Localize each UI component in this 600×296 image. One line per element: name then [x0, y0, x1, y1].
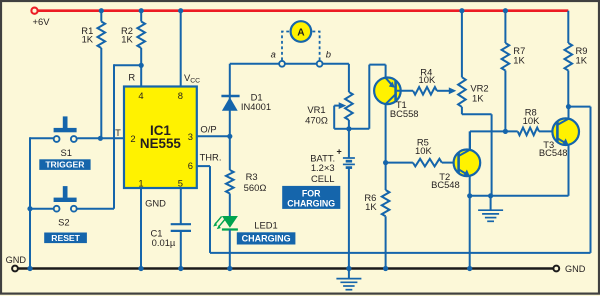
wire pin 3 output [197, 135, 230, 137]
ground terminal right [553, 266, 559, 272]
op-amp U1 IC1 NE555 body [124, 87, 197, 189]
wire ground column [29, 137, 31, 268]
ground symbol right [490, 196, 492, 210]
+6V supply terminal [31, 8, 37, 14]
resistor R3 [226, 170, 234, 194]
svg-text:GND: GND [565, 264, 586, 274]
wire +6V rail [38, 9, 569, 12]
node S2 junction [27, 206, 32, 211]
wire R4 to VR2 wiper [437, 90, 449, 92]
node trigger junction [98, 136, 103, 141]
svg-text:CELL: CELL [311, 173, 334, 184]
resistor R1 [98, 22, 106, 49]
node ground C1 [178, 266, 183, 271]
wire D1 branch [229, 64, 231, 137]
wire VR2 bottom to ground [461, 107, 463, 114]
svg-text:A: A [297, 27, 305, 38]
node ground S branch [27, 266, 32, 271]
node ground T2 [467, 266, 472, 271]
potentiometer VR1 [345, 92, 353, 120]
LED1 emission arrows [215, 216, 225, 226]
wire pin 1 to ground [140, 188, 142, 269]
svg-text:a: a [271, 49, 276, 60]
wire T2 collector line [470, 130, 518, 132]
svg-text:GND: GND [145, 197, 166, 208]
svg-text:1K: 1K [121, 33, 133, 44]
wire b to VR1 [322, 63, 349, 65]
svg-text:0.01µ: 0.01µ [152, 237, 176, 248]
node T2 emitter junction [467, 193, 472, 198]
svg-text:8: 8 [178, 90, 183, 101]
node R7 top junction [503, 8, 508, 13]
svg-text:IN4001: IN4001 [241, 101, 271, 112]
ground terminal left [12, 266, 18, 272]
wire R5 input [386, 162, 413, 164]
transistor Q3 T3 BC548 [552, 118, 579, 145]
wire R7 bottom [504, 71, 506, 132]
svg-text:T: T [115, 127, 121, 138]
transistor Q1 T1 BC558 [374, 78, 401, 105]
wire LED1 to ground [229, 230, 231, 269]
svg-text:TRIGGER: TRIGGER [45, 160, 85, 170]
label TRIGGER [39, 159, 90, 170]
LED LED1 [222, 216, 238, 228]
svg-text:560Ω: 560Ω [244, 182, 267, 193]
wire reset node to pin 4 [140, 65, 142, 86]
label RESET [44, 233, 87, 244]
wire R2 bottom [140, 48, 142, 65]
wire S2 right [77, 208, 114, 210]
svg-text:S1: S1 [60, 147, 71, 158]
label FOR CHARGING [282, 186, 340, 209]
resistor R2 [137, 22, 145, 49]
resistor R9 [565, 43, 573, 71]
wire R3 to LED1 [229, 194, 231, 217]
wire meter link a [230, 63, 279, 65]
svg-text:1K: 1K [365, 201, 377, 212]
node output junction [227, 134, 232, 139]
wire output to R3 [229, 136, 231, 170]
wire R6 bottom [385, 216, 387, 268]
svg-text:2: 2 [130, 133, 135, 144]
wire R5 to T2 base [442, 162, 458, 164]
node reset junction [139, 63, 144, 68]
node Vcc junction [178, 8, 183, 13]
node terminal a [279, 61, 285, 67]
label CHARGING [237, 232, 296, 244]
wire R9 top [567, 11, 569, 43]
wire Vcc pin 8 [180, 11, 182, 87]
wire VR1 bottom [348, 120, 350, 129]
ground rail [18, 267, 554, 270]
switch S1 pushbutton [63, 116, 68, 128]
wire R1 top [100, 11, 102, 22]
wire T1 collector [385, 104, 387, 163]
wire pin 5 to C1 [180, 188, 182, 224]
wire S2 left [30, 208, 54, 210]
node R2 top junction [139, 8, 144, 13]
svg-text:LED1: LED1 [254, 220, 277, 231]
ammeter A [291, 21, 312, 42]
node ground LED1 [227, 266, 232, 271]
svg-text:CHARGING: CHARGING [287, 199, 335, 209]
potentiometer VR2 [458, 77, 466, 107]
switch S2 pushbutton [63, 186, 68, 198]
svg-text:1K: 1K [472, 92, 484, 103]
node terminal b [317, 61, 323, 67]
wire S1 left [30, 137, 54, 139]
svg-text:10K: 10K [415, 145, 432, 156]
svg-text:1K: 1K [513, 55, 525, 66]
resistor R7 [502, 43, 510, 71]
resistor R4 [413, 87, 437, 95]
capacitor C1 [171, 223, 191, 225]
svg-text:4: 4 [138, 90, 143, 101]
wire T2 collector [469, 131, 471, 150]
battery BATT 1.2x3 CELL [343, 157, 355, 159]
node R1 top junction [99, 8, 104, 13]
wire R9 bottom [567, 71, 569, 107]
node ground R6 [383, 266, 388, 271]
svg-text:S2: S2 [58, 216, 69, 227]
wire R8 to T3 base [539, 130, 556, 132]
wire T3 collector [568, 107, 570, 119]
wire between a and b [285, 63, 317, 65]
svg-text:+6V: +6V [33, 16, 51, 27]
svg-text:6: 6 [188, 160, 193, 171]
wire trigger node to pin 2 [77, 137, 124, 139]
svg-text:1: 1 [138, 178, 143, 189]
wire reset node to S2 [114, 64, 141, 66]
svg-text:BC548: BC548 [539, 147, 568, 158]
wire R6 top [385, 163, 387, 190]
svg-text:NE555: NE555 [140, 136, 181, 151]
wire T2 emitter to ground rail [469, 196, 471, 269]
wire C1 to ground [180, 231, 182, 269]
svg-text:10K: 10K [523, 115, 540, 126]
svg-text:3: 3 [188, 131, 193, 142]
wire emitter ground line [470, 195, 569, 197]
svg-text:10K: 10K [419, 74, 436, 85]
resistor R6 [382, 190, 390, 216]
svg-text:O/P: O/P [200, 124, 216, 135]
svg-text:RESET: RESET [51, 233, 80, 243]
ammeter A leads [282, 32, 320, 61]
wire T1 base [397, 90, 413, 92]
node T3 collector junction [566, 104, 571, 109]
svg-text:CHARGING: CHARGING [242, 234, 291, 244]
svg-text:VR1: VR1 [307, 104, 325, 115]
ground symbol battery [348, 269, 350, 279]
wire VR2 top [459, 8, 464, 13]
svg-text:1.2×3: 1.2×3 [311, 162, 335, 173]
wire T2 emitter [469, 176, 471, 196]
wire battery to ground [348, 168, 350, 269]
wire R7 top [504, 11, 506, 43]
node R7 R8 junction [503, 129, 508, 134]
svg-text:5: 5 [178, 178, 183, 189]
wire VR1 node to T1 emitter [349, 128, 369, 130]
node ground battery [346, 266, 351, 271]
svg-text:R: R [128, 72, 135, 83]
transistor Q2 T2 BC548 [454, 150, 481, 177]
svg-text:BC548: BC548 [431, 179, 460, 190]
node T1 collector junction [383, 160, 388, 165]
svg-text:THR.: THR. [200, 152, 222, 163]
VR1 wiper [339, 102, 347, 109]
wire R1 bottom to trigger node [100, 48, 102, 138]
svg-text:FOR: FOR [302, 189, 321, 199]
resistor R5 [413, 159, 442, 167]
svg-text:470Ω: 470Ω [305, 114, 328, 125]
svg-text:+: + [337, 147, 342, 157]
wire R2 top [140, 11, 142, 22]
svg-text:GND: GND [6, 255, 27, 265]
node ground pin1 [138, 266, 143, 271]
node VR1 junction [346, 126, 351, 131]
svg-text:R3: R3 [246, 171, 258, 182]
svg-text:BC558: BC558 [390, 108, 419, 119]
svg-text:1K: 1K [82, 33, 94, 44]
wire VR1 to battery [348, 129, 350, 158]
svg-text:b: b [326, 48, 331, 59]
resistor R8 [518, 128, 539, 136]
wire pin 6 THR [197, 165, 210, 167]
svg-text:1K: 1K [576, 55, 588, 66]
diode D1 [222, 97, 238, 111]
node ground tap junction [488, 193, 493, 198]
wire T3 emitter [568, 144, 570, 195]
